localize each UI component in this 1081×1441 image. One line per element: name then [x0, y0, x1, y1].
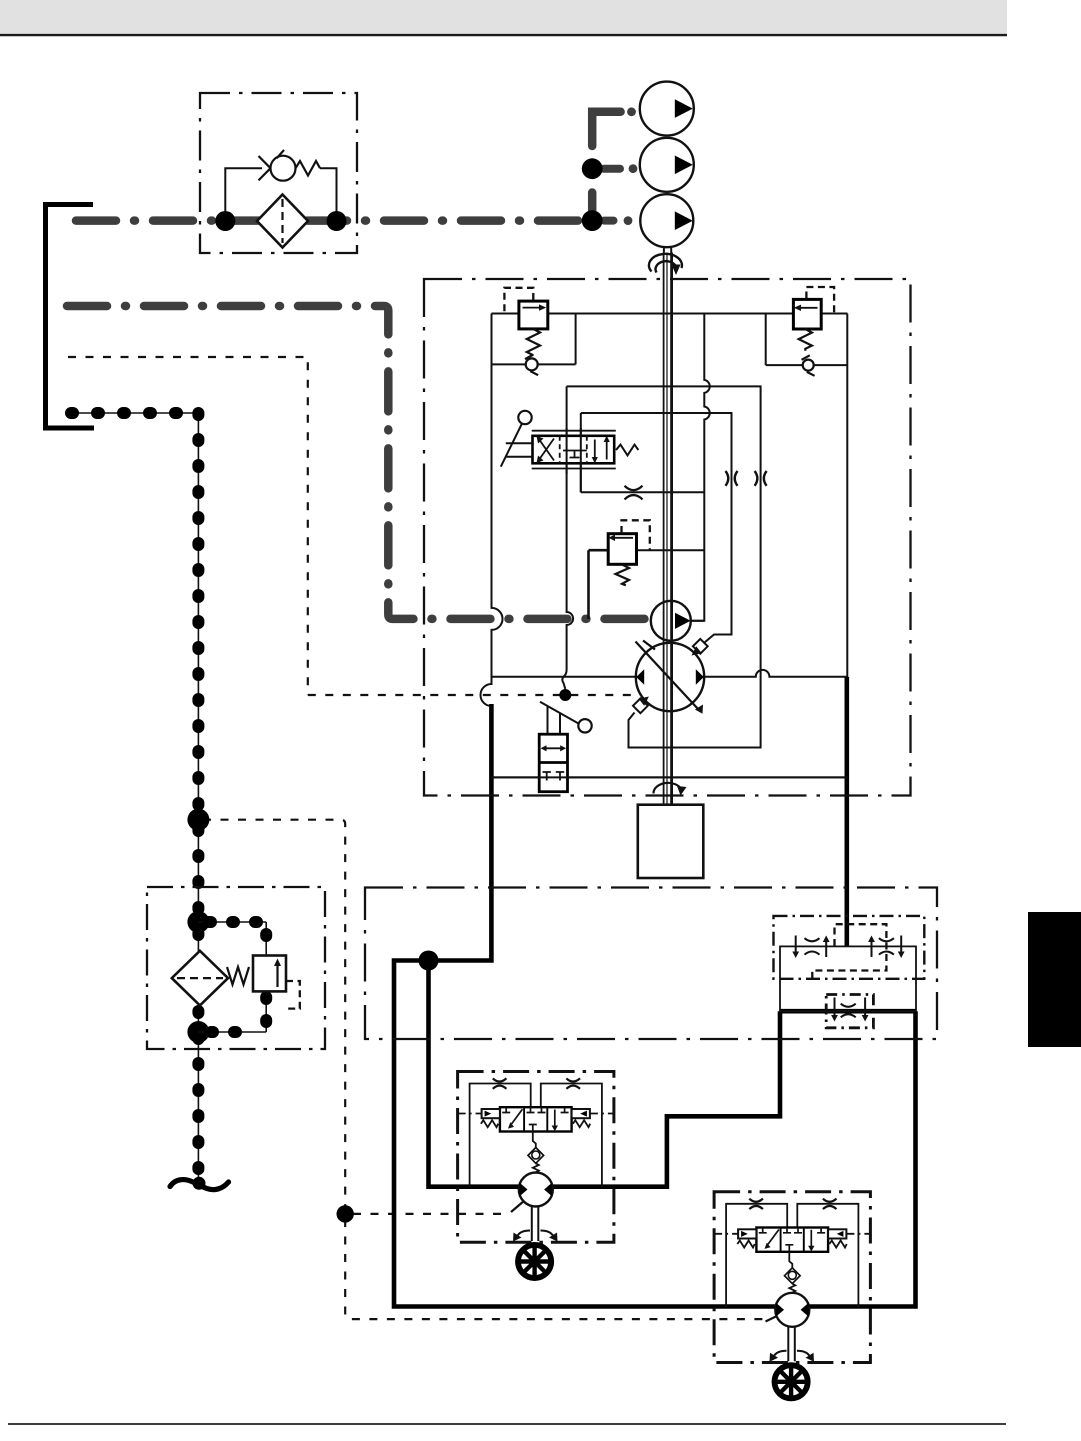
RV1 check valve	[526, 358, 538, 370]
flow divider body	[780, 946, 916, 1011]
tank suction strainer squiggle	[170, 1180, 229, 1190]
beaded suction line: top horizontal run	[71, 412, 198, 414]
gearbox	[638, 805, 704, 878]
beaded bypass loop around filter	[198, 921, 266, 923]
drive coupling neck	[664, 247, 671, 253]
relief valve RV2 body	[793, 299, 821, 329]
junction dot on supply line	[419, 951, 439, 971]
gray stub to pump P3	[604, 217, 614, 225]
servo actuator upper	[693, 639, 708, 654]
bypass valve bottom position blocked ports	[543, 772, 565, 781]
thick flow divider bottom gallery	[780, 1009, 916, 1014]
beaded suction line: vertical run	[197, 413, 199, 1183]
swivel joint on servo loop inner	[726, 471, 738, 486]
charge pump outlet wire	[691, 620, 705, 622]
divider port arrow down-right	[900, 936, 902, 953]
RV3 pilot dashes	[622, 520, 650, 550]
transmission inner housing right edge	[846, 314, 848, 678]
manual servo valve rails	[532, 431, 616, 469]
divider orifice right	[879, 938, 894, 954]
divider lower arrows	[834, 998, 836, 1017]
cooler junction dot right	[327, 211, 347, 231]
charge relief drain wire	[587, 550, 590, 619]
thick supply line from housing to mid manifold junction	[394, 704, 916, 1307]
junction dot on case drain	[559, 689, 571, 701]
variable displacement arrow	[636, 641, 699, 710]
oil cooler element (diamond)	[257, 195, 308, 248]
bypass valve top position double arrow	[545, 747, 562, 749]
left wheel motor circuit	[458, 1072, 614, 1279]
suction filter boundary box	[147, 887, 325, 1049]
gray hose line A (oil cooler line)	[76, 216, 592, 225]
pump P3	[640, 194, 693, 247]
pump P2	[640, 138, 694, 192]
header rule	[0, 34, 1007, 36]
gray stub to pump P2	[603, 165, 620, 173]
divider port arrow up-left	[825, 941, 827, 957]
gray hose line B (suction to charge pump)	[67, 306, 650, 619]
transmission outer boundary box	[424, 279, 911, 796]
flow divider pilot dashes	[812, 924, 886, 979]
servo loop inner wire	[581, 413, 732, 643]
bypass valve body	[539, 734, 567, 792]
beaded junction dot at filter inlet	[187, 911, 209, 933]
dotted drain header down left side	[203, 820, 345, 1209]
divider orifice left	[805, 938, 820, 954]
servo loop outer wire	[567, 386, 761, 747]
bypass gallery wire	[492, 776, 848, 778]
dotted pilot line from reservoir area	[68, 357, 308, 695]
charge pressure wire with hops	[691, 314, 710, 621]
valve spring right	[616, 445, 638, 456]
gray line A riser to pumps	[592, 112, 620, 146]
right wheel motor circuit	[714, 1192, 870, 1399]
header band	[0, 0, 1007, 33]
flow divider boundary box	[774, 916, 925, 979]
variable displacement pump	[636, 643, 704, 711]
oil cooler loop wire	[225, 168, 336, 221]
RV1 pilot dashes	[504, 288, 533, 314]
wire from servo valve left leg	[562, 386, 573, 689]
thick feed to flow divider	[844, 677, 849, 946]
wires crossing valve body	[567, 428, 581, 492]
footer rule	[8, 1423, 1006, 1425]
left bracket mark	[46, 205, 95, 429]
oil cooler assembly boundary box	[200, 93, 357, 253]
relief valve RV1 check branch	[492, 363, 576, 365]
mid manifold boundary box	[365, 888, 937, 1040]
charge pump	[651, 601, 691, 641]
thick branch to left wheel motor	[429, 961, 781, 1187]
drive shaft lines	[663, 253, 665, 805]
dotted drain branch to right wheel motor	[345, 1219, 764, 1319]
filter bypass relief valve	[253, 956, 286, 992]
RV2 pilot dashes	[806, 287, 834, 314]
cooler junction dot left	[215, 211, 235, 231]
RV2 spring	[799, 329, 812, 351]
beaded junction dot at filter outlet	[187, 1021, 209, 1043]
wire from servo valve right leg	[580, 413, 582, 492]
page tab black marker	[1028, 912, 1081, 1047]
valve centre position	[563, 451, 587, 458]
transmission inner housing left edge with line hops	[481, 314, 503, 707]
charge relief valve RV3 body	[608, 534, 636, 565]
RV1 spring	[527, 329, 540, 355]
main port wire right of pump with hop	[704, 670, 848, 677]
orifice wire to charge line	[581, 491, 705, 493]
divider port arrow up-right	[871, 941, 873, 957]
flow divider lower orifice boundary box	[826, 995, 873, 1028]
dotted case drain line to pump case	[308, 694, 638, 696]
transmission inner housing bottom edge	[492, 776, 848, 778]
divider port arrow down-left	[795, 936, 797, 953]
main port wire left of pump	[492, 676, 637, 678]
dotted drain branch to left wheel motor	[353, 1213, 509, 1215]
cooler bypass spring	[296, 161, 321, 176]
divider lower orifice	[841, 1004, 856, 1018]
valve control lever	[518, 411, 531, 424]
junction dot at pump P2 tee	[582, 158, 603, 179]
cooler bypass check valve	[271, 156, 296, 181]
manual servo valve body	[533, 436, 615, 464]
filter relief pilot dashes	[284, 981, 300, 1009]
charge relief wire	[589, 549, 609, 552]
valve left position crossed arrows	[540, 439, 555, 461]
gearbox input rotation symbol	[653, 783, 681, 794]
junction dot at pump P3 tee	[582, 210, 603, 231]
junction dot on drain header	[337, 1205, 354, 1222]
relief valve RV1 body	[519, 301, 548, 329]
relief valve RV2 check branch	[765, 314, 767, 366]
servo actuator lower	[633, 698, 648, 713]
RV3 spring	[616, 565, 630, 586]
suction line filter element (diamond)	[172, 951, 228, 1006]
gray stub to pump P1	[627, 107, 636, 116]
RV2 check valve	[803, 360, 814, 371]
beaded junction dot upper	[187, 809, 209, 831]
swivel joint on servo loop outer	[755, 471, 767, 486]
valve right position arrows	[606, 441, 608, 460]
transmission inner housing top edge	[492, 313, 848, 315]
filter bypass spring	[227, 967, 249, 985]
charge orifice symbol	[625, 486, 643, 500]
bypass lever switch	[578, 719, 591, 732]
drive coupling rotation symbol	[649, 254, 682, 272]
pump P1	[640, 82, 694, 136]
